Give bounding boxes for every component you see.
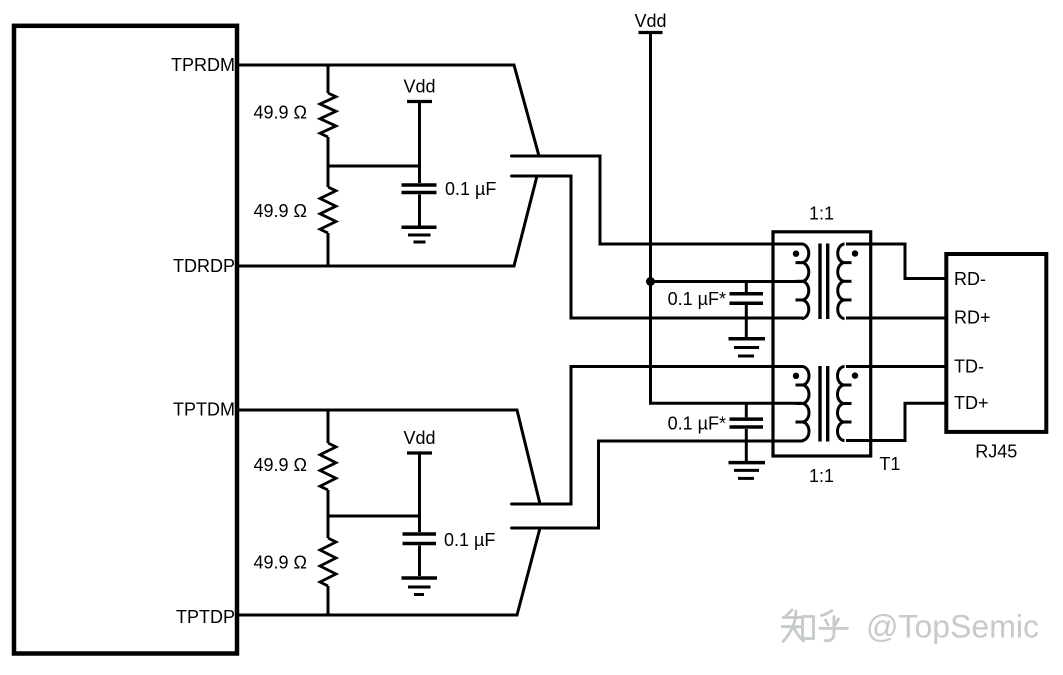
svg-text:0.1 µF: 0.1 µF (444, 530, 495, 550)
svg-text:Vdd: Vdd (403, 428, 435, 448)
svg-text:49.9 Ω: 49.9 Ω (254, 553, 308, 573)
svg-text:0.1 µF: 0.1 µF (445, 179, 496, 199)
svg-text:Vdd: Vdd (403, 77, 435, 97)
svg-text:49.9 Ω: 49.9 Ω (254, 103, 308, 123)
svg-text:49.9 Ω: 49.9 Ω (254, 201, 308, 221)
svg-text:RD+: RD+ (954, 308, 991, 328)
svg-text:0.1 µF*: 0.1 µF* (668, 414, 726, 434)
svg-text:Vdd: Vdd (634, 11, 666, 31)
svg-text:TPTDP: TPTDP (176, 607, 235, 627)
svg-text:RD-: RD- (954, 269, 986, 289)
svg-text:TD-: TD- (954, 356, 984, 376)
svg-text:0.1 µF*: 0.1 µF* (668, 289, 726, 309)
svg-text:T1: T1 (879, 454, 900, 474)
svg-text:RJ45: RJ45 (975, 442, 1017, 462)
svg-text:@TopSemic: @TopSemic (866, 609, 1039, 645)
svg-text:TDRDP: TDRDP (173, 256, 235, 276)
svg-text:1:1: 1:1 (809, 466, 834, 486)
svg-text:TPTDM: TPTDM (173, 400, 235, 420)
svg-text:49.9 Ω: 49.9 Ω (254, 455, 308, 475)
svg-text:TPRDM: TPRDM (171, 55, 235, 75)
svg-text:TD+: TD+ (954, 393, 989, 413)
svg-text:1:1: 1:1 (809, 204, 834, 224)
